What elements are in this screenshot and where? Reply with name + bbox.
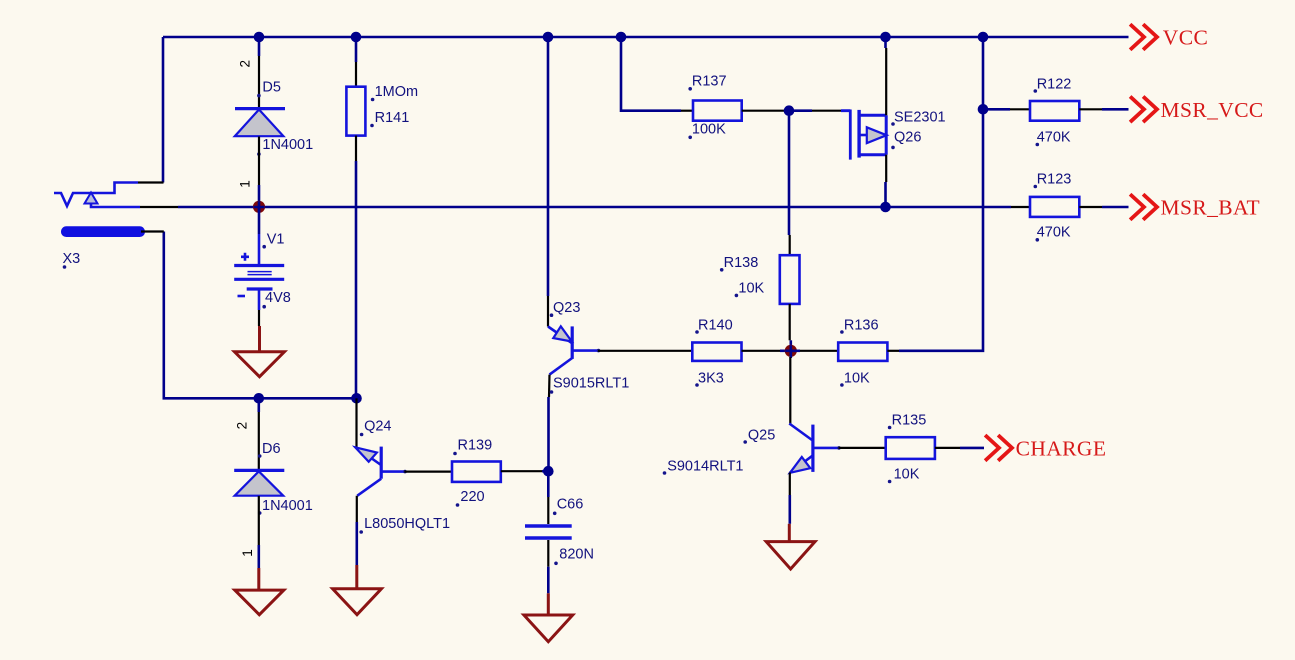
wire R135 to CHARGE port — [960, 447, 984, 450]
resistor R136 — [838, 343, 887, 361]
label R122 value 470K — [1036, 130, 1071, 147]
label D6 designator — [258, 441, 281, 458]
wire bus to D6 cathode — [257, 398, 260, 412]
junction on rail at R141 — [351, 32, 362, 43]
pin left of R137 — [681, 110, 693, 112]
wire MSR_BAT horizontal net — [178, 206, 1011, 209]
svg-text:1N4001: 1N4001 — [262, 137, 313, 153]
junction R137/R138/Q26 gate — [784, 105, 795, 116]
wire Q23 collector down to R139 node — [547, 397, 550, 471]
pin 2 of D6 — [235, 412, 259, 470]
svg-text:820N: 820N — [559, 547, 594, 563]
svg-text:D6: D6 — [262, 441, 281, 457]
label D6 value 1N4001 — [258, 498, 313, 515]
svg-text:10K: 10K — [894, 467, 920, 483]
svg-text:L8050HQLT1: L8050HQLT1 — [364, 516, 450, 532]
label R122 designator — [1034, 77, 1072, 93]
pin base of Q24 to R139 — [404, 471, 452, 473]
label R135 value 10K — [888, 467, 920, 484]
pin top of R141 — [355, 62, 357, 87]
label R140 value 3K3 — [695, 371, 724, 387]
junction on rail at Q23 — [543, 32, 554, 43]
svg-text:VCC: VCC — [1163, 26, 1208, 50]
svg-text:4V8: 4V8 — [265, 290, 291, 306]
wire rail to Q23 collector run — [547, 37, 550, 296]
label Q23 part S9015RLT1 — [550, 376, 630, 394]
svg-text:1MOm: 1MOm — [375, 84, 419, 100]
wire X3 sleeve to lower-left bus — [164, 232, 357, 399]
label R139 designator — [453, 438, 492, 456]
label Q24 designator — [360, 419, 392, 437]
pin source of Q26 down to MSR_BAT — [884, 155, 887, 207]
svg-text:2: 2 — [235, 422, 250, 430]
node MSR_BAT red junction at D5/battery — [253, 201, 265, 213]
junction lower bus at D6 — [253, 393, 264, 404]
pin top of C66 — [547, 497, 549, 524]
wire right vertical rail to R136 — [899, 37, 983, 351]
wire R138 to center node — [789, 340, 792, 351]
wire D6 to ground — [257, 545, 260, 568]
svg-text:220: 220 — [460, 489, 484, 505]
ground below Q24 — [333, 565, 382, 615]
port CHARGE — [987, 436, 1107, 460]
svg-text:S9015RLT1: S9015RLT1 — [553, 376, 629, 392]
wire Q25 emitter down — [789, 473, 791, 524]
label R136 designator — [840, 318, 878, 334]
ground below battery V1 — [235, 326, 285, 377]
svg-text:X3: X3 — [63, 251, 81, 267]
connector X3 — [54, 183, 178, 238]
wire rail left drop to X3 switch pin — [162, 37, 165, 183]
wire rail to D5 cathode — [258, 37, 261, 56]
label X3 designator — [63, 251, 81, 269]
wire Q23 base to R140 — [598, 350, 692, 352]
svg-text:CHARGE: CHARGE — [1016, 437, 1107, 461]
label Q25 part S9014RLT1 — [663, 459, 744, 475]
pin drain of Q26 to rail — [884, 37, 887, 115]
wire rail to R141 — [355, 37, 358, 62]
label Q26 part SE2301 — [891, 110, 945, 126]
svg-text:Q25: Q25 — [748, 428, 775, 444]
label Q24 part L8050HQLT1 — [359, 516, 450, 534]
svg-text:S9014RLT1: S9014RLT1 — [667, 459, 743, 475]
svg-text:R135: R135 — [892, 413, 927, 429]
junction on rail at right vertical — [978, 32, 989, 43]
wire junction to R122 — [983, 108, 1010, 111]
pin base of Q25 to R135 — [839, 447, 886, 449]
svg-text:MSR_BAT: MSR_BAT — [1161, 196, 1261, 220]
wire center node down to Q25 — [789, 351, 792, 424]
ground below Q25 — [766, 524, 815, 569]
svg-text:R141: R141 — [375, 110, 410, 126]
capacitor C66 — [525, 526, 572, 538]
pin right of R122 — [1079, 108, 1102, 110]
wire top VCC rail — [163, 36, 1129, 39]
resistor R139 — [452, 462, 501, 482]
pin top of R138 — [789, 235, 791, 255]
pin left of R136 — [791, 349, 838, 352]
svg-text:R123: R123 — [1037, 172, 1072, 188]
svg-text:V1: V1 — [267, 232, 285, 248]
svg-text:C66: C66 — [557, 497, 584, 513]
diode D6 — [234, 470, 284, 495]
svg-text:R139: R139 — [458, 438, 493, 454]
label V1 value 4V8 — [262, 290, 290, 309]
svg-text:1N4001: 1N4001 — [262, 498, 313, 514]
pin right of R136 — [887, 350, 899, 352]
label R138 designator — [720, 255, 758, 272]
resistor R138 — [780, 255, 800, 304]
junction on rail at D5 — [254, 32, 265, 43]
resistor R123 — [1030, 197, 1079, 217]
label R138 value 10K — [735, 281, 765, 298]
label V1 designator — [262, 232, 284, 249]
label R123 value 470K — [1036, 225, 1071, 242]
label D5 designator — [257, 80, 281, 98]
svg-text:Q24: Q24 — [364, 419, 391, 435]
pin right of R137 — [742, 110, 785, 112]
resistor R141 — [346, 87, 365, 136]
pin 1 of D6 — [240, 496, 259, 557]
svg-text:3K3: 3K3 — [698, 371, 724, 387]
svg-text:10K: 10K — [844, 371, 870, 387]
port MSR_VCC — [1132, 98, 1264, 122]
svg-text:10K: 10K — [738, 281, 764, 297]
diode D5 — [235, 109, 285, 137]
ground below D6 — [235, 568, 284, 615]
pin bottom of R138 — [789, 304, 791, 340]
svg-text:470K: 470K — [1037, 225, 1071, 241]
pin bottom of R141 — [355, 136, 357, 161]
label R137 designator — [688, 74, 726, 91]
svg-text:Q23: Q23 — [553, 300, 580, 316]
junction MSR_VCC tap — [978, 104, 989, 115]
node center red junction — [785, 345, 797, 357]
wire R122 to MSR_VCC port — [1102, 108, 1129, 111]
svg-text:1: 1 — [240, 549, 255, 557]
label D5 value 1N4001 — [257, 137, 313, 156]
svg-text:R137: R137 — [692, 74, 727, 90]
port MSR_BAT — [1132, 196, 1261, 220]
wire node to battery V1 — [258, 207, 261, 234]
wire junction R137 down to R138 — [788, 111, 791, 235]
resistor R140 — [692, 343, 741, 361]
wire junction down to C66 — [547, 471, 550, 497]
junction on rail at R137 — [616, 32, 627, 43]
port VCC — [1132, 26, 1209, 50]
label Q23 designator — [550, 300, 581, 317]
junction on rail at Q26 — [880, 32, 891, 43]
wire junction to Q26 gate — [789, 109, 812, 112]
wire D5 to MSR_BAT node — [258, 185, 261, 207]
svg-text:R122: R122 — [1037, 77, 1072, 93]
pin gate of Q26 — [812, 110, 841, 112]
label R140 designator — [695, 318, 732, 334]
junction R139/Q23/C66 — [543, 466, 554, 477]
label C66 value 820N — [554, 547, 594, 566]
pin right of R140 — [742, 350, 791, 352]
pin bottom of C66 — [547, 540, 549, 567]
transistor Q23 S9015RLT1 — [548, 296, 600, 397]
pin left of R123 — [1011, 206, 1030, 208]
svg-text:100K: 100K — [692, 122, 726, 138]
svg-text:Q26: Q26 — [894, 130, 921, 146]
transistor Q25 S9014RLT1 — [789, 424, 841, 473]
label R141 value 1MOm — [371, 84, 418, 101]
junction Q26 on MSR_BAT — [880, 202, 891, 213]
label R141 designator — [370, 110, 409, 127]
svg-text:D5: D5 — [262, 80, 281, 96]
svg-text:470K: 470K — [1037, 130, 1071, 146]
pin right of R123 — [1079, 206, 1102, 208]
wire R141 down to lower bus — [355, 161, 358, 398]
pin right of R135 — [935, 447, 960, 449]
junction lower bus at Q24 — [351, 393, 362, 404]
mosfet Q26 SE2301 — [841, 110, 887, 160]
svg-text:1: 1 — [238, 180, 253, 188]
label Q26 designator — [891, 130, 921, 150]
label Q25 designator — [743, 428, 775, 444]
label R135 designator — [888, 413, 926, 430]
transistor Q24 L8050HQLT1 — [355, 398, 407, 522]
label R136 value 10K — [840, 371, 870, 387]
resistor R122 — [1030, 101, 1079, 121]
svg-text:R138: R138 — [724, 255, 759, 271]
wire Q24 emitter to ground — [355, 522, 358, 565]
label C66 designator — [553, 497, 583, 516]
label R123 designator — [1034, 172, 1072, 189]
svg-text:SE2301: SE2301 — [894, 110, 946, 126]
label R137 value 100K — [688, 122, 726, 140]
wire C66 to ground — [547, 567, 550, 594]
pin 2 of D5 — [238, 56, 260, 109]
svg-text:R136: R136 — [844, 318, 879, 334]
svg-text:2: 2 — [238, 60, 253, 68]
svg-text:MSR_VCC: MSR_VCC — [1161, 98, 1264, 122]
label R139 value 220 — [456, 489, 485, 507]
ground below C66 — [524, 593, 573, 641]
svg-text:R140: R140 — [698, 318, 733, 334]
resistor R137 — [693, 101, 742, 121]
battery V1 — [234, 234, 284, 326]
resistor R135 — [886, 437, 935, 459]
wire R123 to MSR_BAT port — [1102, 206, 1129, 209]
wire rail to R137 — [621, 37, 681, 111]
pin 1 of D5 — [238, 137, 260, 188]
pin right of R139 — [501, 470, 549, 472]
pin left of R122 — [1010, 108, 1030, 110]
